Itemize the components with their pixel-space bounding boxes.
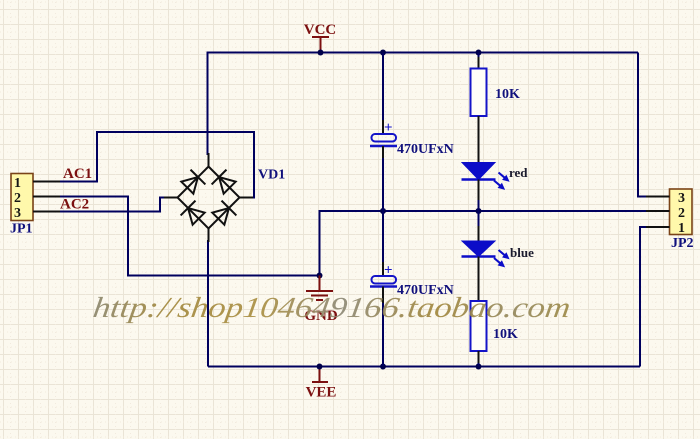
JP1 pin 2 — [14, 191, 60, 206]
junction on top rail at capacitor branch — [380, 50, 386, 56]
capacitor C2 470UFxN — [370, 263, 397, 301]
svg-text:470UFxN: 470UFxN — [397, 142, 454, 157]
bridge diode top-left — [180, 170, 205, 195]
wire right side up to JP2 pin1 — [640, 227, 670, 367]
resistor R2 10K — [471, 301, 487, 367]
svg-text:10K: 10K — [495, 87, 520, 102]
svg-text:2: 2 — [678, 206, 685, 221]
power symbol VEE — [306, 367, 337, 401]
junction bottom rail at VEE — [317, 364, 323, 370]
wire capacitor C2 to bottom rail — [382, 287, 384, 304]
svg-text:VCC: VCC — [304, 22, 337, 38]
wire mid rail to capacitor C2 — [382, 211, 384, 262]
JP2 pin 2 — [646, 206, 685, 221]
svg-text:1: 1 — [14, 176, 21, 191]
svg-text:VEE: VEE — [306, 385, 337, 401]
bridge diode bottom-left — [181, 201, 206, 226]
wire JP1 pin3 to bridge left vertex — [60, 198, 166, 212]
svg-text:3: 3 — [14, 206, 21, 221]
wire AC1 from JP1 pin1 to bridge right vertex — [60, 132, 254, 198]
junction bottom rail at resistor branch — [476, 364, 482, 370]
LED D2 blue — [462, 226, 512, 280]
junction bottom rail at capacitor branch — [380, 364, 386, 370]
JP2 pin 3 — [646, 191, 685, 206]
wire LED D2 to resistor R2 — [478, 280, 480, 301]
svg-text:1: 1 — [678, 221, 685, 236]
wire top-right drop to JP2 pin3 — [638, 53, 670, 197]
resistor R1 10K — [471, 57, 487, 140]
JP2 pin 1 — [646, 221, 685, 236]
svg-text:JP2: JP2 — [671, 236, 694, 251]
wire capacitor C1 to mid rail — [382, 158, 384, 211]
svg-text:JP1: JP1 — [10, 222, 33, 237]
bridge rectifier VD1 diamond — [164, 153, 253, 242]
svg-text:red: red — [509, 165, 528, 180]
JP1 pin 3 — [14, 206, 60, 221]
junction mid rail LED branch — [476, 208, 482, 214]
wire top-left drop to bridge top — [207, 53, 209, 156]
junction mid rail capacitor branch — [380, 208, 386, 214]
svg-text:10K: 10K — [493, 327, 518, 342]
wire mid rail to LED D2 — [478, 211, 480, 226]
svg-text:VD1: VD1 — [258, 168, 285, 183]
wire VEE bottom rail — [208, 366, 640, 368]
wire VCC top rail — [207, 52, 639, 54]
wire GND mid rail to JP2 pin2 — [320, 211, 670, 276]
JP1 pin 1 — [14, 176, 60, 191]
wire resistor R1 to LED D1 — [478, 140, 480, 152]
junction on top rail at resistor branch — [476, 50, 482, 56]
svg-text:AC2: AC2 — [60, 197, 89, 213]
bridge diode top-right — [212, 170, 237, 195]
capacitor C1 470UFxN — [370, 120, 397, 158]
connector JP1 body — [11, 174, 33, 221]
connector JP2 body — [670, 189, 693, 235]
wire capacitor column upper — [382, 53, 384, 121]
LED D1 red — [462, 152, 512, 200]
svg-text:2: 2 — [14, 191, 21, 206]
ground symbol GND — [304, 276, 338, 325]
power symbol VCC — [304, 22, 337, 53]
svg-text:AC1: AC1 — [63, 166, 92, 182]
svg-text:blue: blue — [510, 245, 534, 260]
wire LED D1 to mid rail — [478, 200, 480, 211]
wire resistor column top — [478, 53, 480, 58]
svg-text:http://shop104649166.taobao.co: http://shop104649166.taobao.com — [91, 292, 572, 324]
bridge diode bottom-right — [211, 201, 236, 226]
junction GND node — [317, 273, 323, 279]
junction on top rail at VCC — [318, 50, 324, 56]
wire AC2 from JP1 pin2 to GND junction — [60, 197, 320, 276]
svg-text:3: 3 — [678, 191, 685, 206]
wire bridge bottom to VEE rail — [207, 240, 209, 367]
